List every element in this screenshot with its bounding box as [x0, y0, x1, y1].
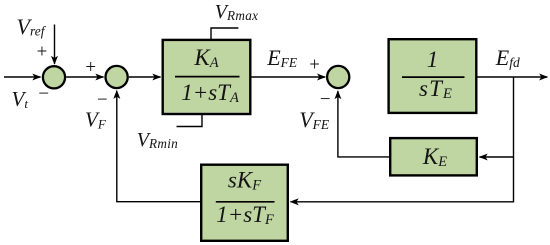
- svg-text:−: −: [96, 90, 109, 111]
- svg-text:+: +: [35, 42, 48, 63]
- svg-text:−: −: [319, 89, 332, 110]
- svg-text:+: +: [308, 55, 321, 76]
- svg-text:Vt: Vt: [12, 87, 29, 111]
- svg-text:VF: VF: [85, 108, 107, 132]
- svg-text:VFE: VFE: [299, 107, 330, 132]
- svg-text:EFE: EFE: [266, 45, 298, 70]
- svg-text:Vref: Vref: [17, 14, 47, 39]
- svg-text:+: +: [84, 57, 97, 78]
- svg-text:−: −: [37, 84, 50, 105]
- svg-text:VRmin: VRmin: [137, 129, 178, 151]
- svg-text:1: 1: [427, 47, 439, 72]
- svg-text:Efd: Efd: [495, 45, 520, 70]
- svg-text:VRmax: VRmax: [215, 1, 258, 23]
